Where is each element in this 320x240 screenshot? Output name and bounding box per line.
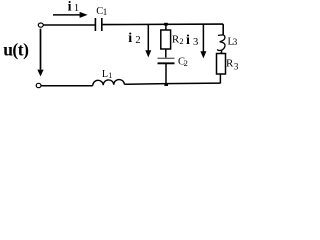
- svg-text:2: 2: [184, 58, 188, 68]
- wire R3 bottom lead: [219, 74, 221, 83]
- terminal bottom-left: [36, 83, 41, 87]
- capacitor C2: [158, 58, 175, 63]
- node junction top (R2 branch): [164, 23, 168, 26]
- wire R2 top lead: [165, 24, 167, 30]
- inductor L1: [93, 80, 125, 86]
- voltage arrow u(t): [37, 29, 43, 77]
- svg-text:L: L: [102, 69, 108, 80]
- svg-text:2: 2: [179, 36, 183, 46]
- wire L3-R3 lead: [220, 52, 222, 54]
- wire top horizontal left segment: [43, 24, 94, 26]
- node junction bottom (C2 branch): [164, 83, 168, 86]
- svg-text:2: 2: [135, 35, 140, 46]
- svg-text:R: R: [226, 57, 234, 69]
- current arrow i1: [53, 12, 88, 18]
- resistor R3: [217, 54, 226, 75]
- wire C2 bottom lead: [165, 64, 167, 84]
- svg-text:1: 1: [108, 71, 112, 80]
- svg-text:3: 3: [193, 37, 198, 48]
- current arrow i3: [200, 25, 206, 59]
- wire R2-C2 lead: [165, 49, 167, 58]
- svg-text:3: 3: [234, 62, 239, 72]
- svg-text:1: 1: [74, 3, 79, 14]
- resistor R2: [161, 30, 171, 49]
- wire bottom middle segment: [124, 83, 220, 84]
- current arrow i2: [145, 25, 151, 58]
- svg-text:i: i: [68, 0, 72, 15]
- wire top-right corner vertical: [222, 24, 224, 35]
- inductor L3: [217, 35, 225, 51]
- wire top horizontal right segment: [103, 23, 224, 26]
- svg-text:1: 1: [103, 7, 108, 17]
- svg-text:u(t): u(t): [3, 40, 29, 60]
- wire bottom left segment: [41, 85, 93, 87]
- svg-text:i: i: [186, 33, 190, 48]
- svg-text:3: 3: [233, 37, 238, 47]
- capacitor C1: [95, 18, 101, 31]
- svg-text:i: i: [128, 31, 132, 46]
- terminal top-left: [38, 23, 43, 27]
